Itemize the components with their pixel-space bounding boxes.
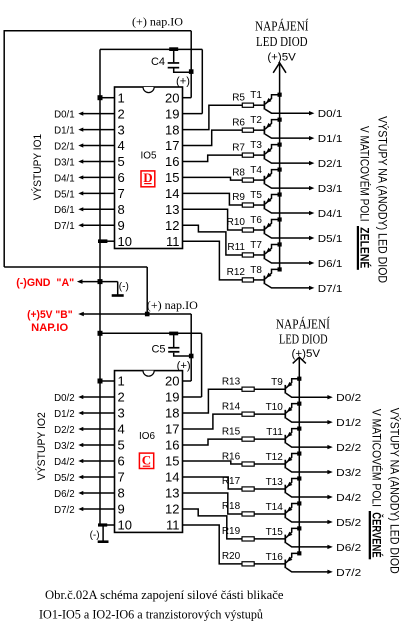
transistor T14 collector <box>286 518 328 522</box>
svg-text:D3/2: D3/2 <box>336 467 361 479</box>
svg-text:D7/2: D7/2 <box>54 504 75 516</box>
wire pin3 IO6 to D1/2 <box>82 412 115 414</box>
svg-text:17: 17 <box>165 422 179 437</box>
resistor R16 <box>242 462 254 466</box>
underline CERVENE <box>369 511 371 559</box>
transistor T10 base bar <box>284 410 286 419</box>
wire R16 to T12 base <box>254 463 285 465</box>
svg-text:D4/2: D4/2 <box>54 456 75 468</box>
arrow output D1/2 <box>327 420 332 424</box>
transistor T1 emitter arrow <box>266 98 271 103</box>
arrow output D6/2 <box>327 545 332 549</box>
wire GND loop2 drop to pin19 IO6 <box>201 333 203 397</box>
transistor T12 emitter <box>286 454 299 464</box>
transistor T15 emitter arrow <box>287 532 292 537</box>
transistor T14 emitter arrow <box>287 507 292 512</box>
svg-text:D7/1: D7/1 <box>318 283 343 295</box>
junction T2 emitter on +5V rail <box>278 118 282 122</box>
svg-text:C: C <box>142 453 151 468</box>
wire pin18 IO5 to R5 <box>183 105 243 129</box>
wire +nap.IO top horizontal <box>4 30 192 32</box>
junction GND loop2 <box>98 331 103 336</box>
junction T14 emitter on +5V rail <box>297 501 301 505</box>
junction T1 emitter on +5V rail <box>278 93 282 97</box>
svg-text:14: 14 <box>165 186 179 201</box>
arrow output D7/1 <box>309 286 314 290</box>
wire +5V rail (green section) <box>279 63 281 270</box>
wire pin17 IO6 to R14 <box>183 414 243 429</box>
svg-text:VÝSTUPY NA (ANODY) LED DIOD: VÝSTUPY NA (ANODY) LED DIOD <box>375 116 390 283</box>
wire pin18 IO6 to R13 <box>183 389 243 413</box>
resistor R5 <box>242 103 253 107</box>
junction C5 top lead on GND loop <box>169 332 178 336</box>
svg-text:5: 5 <box>118 154 125 169</box>
svg-text:LED DIOD: LED DIOD <box>256 34 308 49</box>
IC IO6 notch <box>143 371 154 377</box>
resistor R15 <box>242 437 254 441</box>
svg-text:IO1-IO5 a IO2-IO6 a tranzistor: IO1-IO5 a IO2-IO6 a tranzistorových výst… <box>39 607 263 622</box>
IO6 left pin numbers 1-10 <box>118 374 132 533</box>
wire pin11 IO6 to R20 <box>183 525 243 564</box>
svg-text:D2/1: D2/1 <box>318 158 343 170</box>
svg-text:D: D <box>143 170 152 185</box>
svg-text:2: 2 <box>118 106 125 121</box>
transistor T5 collector <box>265 209 310 213</box>
junction C4 (+) lead <box>189 69 194 74</box>
junction T5 emitter on +5V rail <box>278 192 282 196</box>
transistor T8 collector <box>265 284 310 288</box>
svg-text:T16: T16 <box>266 552 284 563</box>
capacitor C5 bottom plate <box>168 351 179 353</box>
svg-text:NAP.IO: NAP.IO <box>31 322 68 334</box>
svg-text:D0/1: D0/1 <box>318 108 343 120</box>
transistor T13 emitter <box>286 479 299 489</box>
wire pin6 IO5 to D4/1 <box>82 176 115 178</box>
svg-text:T3: T3 <box>250 140 262 151</box>
svg-text:R13: R13 <box>222 376 241 387</box>
svg-text:15: 15 <box>165 454 179 469</box>
svg-text:NAPÁJENÍ: NAPÁJENÍ <box>276 317 330 332</box>
transistor T10 collector <box>286 418 328 422</box>
transistor T4 emitter <box>265 170 280 180</box>
wire +5V rail (red section) <box>298 357 300 553</box>
arrow D3/1 (points left) <box>78 159 83 163</box>
arrow D4/2 (points left) <box>78 459 83 463</box>
transistor T14 emitter <box>286 503 299 513</box>
transistor T15 base bar <box>284 535 286 544</box>
capacitor C5 bottom lead <box>174 353 192 356</box>
arrow output D0/2 <box>327 395 332 399</box>
svg-text:20: 20 <box>165 374 179 389</box>
svg-text:9: 9 <box>118 218 125 233</box>
svg-text:13: 13 <box>165 486 179 501</box>
arrow D3/2 (points left) <box>78 443 83 447</box>
svg-text:D0/1: D0/1 <box>54 109 75 121</box>
svg-text:9: 9 <box>118 502 125 517</box>
wire ground stem below IO6 <box>102 525 104 541</box>
transistor T7 emitter <box>265 244 280 254</box>
red letter D underline <box>144 183 151 185</box>
red letter C underline <box>143 465 150 467</box>
svg-text:(+) nap.IO: (+) nap.IO <box>132 15 183 29</box>
wire +nap vertical to C4 (+) <box>190 31 192 98</box>
wire +nap.IO drop to +5V B line <box>146 267 148 314</box>
svg-text:VÝSTUPY IO1: VÝSTUPY IO1 <box>31 134 44 201</box>
svg-text:T5: T5 <box>250 190 262 201</box>
wire pin4 IO5 to D2/1 <box>82 145 115 147</box>
svg-text:(-): (-) <box>119 282 129 293</box>
wire pin19 IO6 <box>183 396 202 398</box>
wire pin5 IO5 to D3/1 <box>82 160 115 162</box>
svg-text:D0/2: D0/2 <box>336 392 361 404</box>
svg-text:D5/1: D5/1 <box>318 233 343 245</box>
wire R19 to T15 base <box>254 538 285 540</box>
svg-text:Obr.č.02A schéma zapojení silo: Obr.č.02A schéma zapojení silové části b… <box>45 587 284 602</box>
svg-text:11: 11 <box>166 518 180 533</box>
wire pin9 IO6 to D7/2 <box>82 508 115 510</box>
transistor T2 emitter <box>265 120 280 130</box>
svg-text:D6/1: D6/1 <box>318 258 343 270</box>
transistor T16 collector <box>286 568 328 572</box>
svg-text:T11: T11 <box>266 427 283 438</box>
svg-text:D1/1: D1/1 <box>318 133 343 145</box>
red letter box C (IO6) <box>139 453 153 468</box>
svg-text:R16: R16 <box>222 451 241 462</box>
junction T4 emitter on +5V rail <box>278 167 282 171</box>
wire pin1 IO6 <box>100 380 115 382</box>
wire pin6 IO6 to D4/2 <box>82 460 115 462</box>
arrow output D0/1 <box>309 111 314 115</box>
svg-text:13: 13 <box>165 202 179 217</box>
wire R18 to T14 base <box>254 513 285 515</box>
wire R15 to T11 base <box>254 438 285 440</box>
wire pin16 IO5 to R7 <box>183 155 243 161</box>
wire pin5 IO6 to D3/2 <box>82 444 115 446</box>
transistor T16 emitter arrow <box>287 557 292 562</box>
svg-text:R5: R5 <box>232 92 245 103</box>
svg-text:VÝSTUPY NA (ANODY) LED DIOD: VÝSTUPY NA (ANODY) LED DIOD <box>388 408 403 574</box>
svg-text:D5/2: D5/2 <box>54 472 75 484</box>
resistor R13 <box>242 387 254 391</box>
junction T7 emitter on +5V rail <box>278 242 282 246</box>
junction T12 emitter on +5V rail <box>297 451 301 455</box>
wire pin13 IO5 to R10 <box>183 209 243 230</box>
transistor T9 base bar <box>284 385 286 394</box>
junction T8 emitter on +5V rail <box>278 267 282 271</box>
svg-text:19: 19 <box>165 106 179 121</box>
transistor T2 emitter arrow <box>266 123 271 128</box>
IC IO6 body <box>115 371 183 533</box>
arrow D4/1 (points left) <box>78 175 83 179</box>
svg-text:D7/2: D7/2 <box>336 567 361 579</box>
junction T11 emitter on +5V rail <box>297 427 301 431</box>
wire GND loop1 drop to pin19 IO5 <box>201 49 203 113</box>
svg-text:15: 15 <box>165 170 179 185</box>
svg-text:D5/1: D5/1 <box>54 188 75 200</box>
arrow D5/2 (points left) <box>78 475 83 479</box>
transistor T9 emitter <box>286 379 299 389</box>
transistor T6 emitter arrow <box>266 223 271 228</box>
svg-text:R15: R15 <box>222 426 241 437</box>
svg-text:6: 6 <box>118 170 125 185</box>
arrow +5V B (points left) <box>78 312 84 317</box>
svg-text:12: 12 <box>165 502 179 517</box>
svg-text:T15: T15 <box>266 527 284 538</box>
arrow output D3/1 <box>309 186 314 190</box>
arrow D0/2 (points left) <box>78 395 83 399</box>
arrow output D5/1 <box>309 236 314 240</box>
transistor T13 collector <box>286 493 328 497</box>
wire pin3 IO5 to D1/1 <box>82 129 115 131</box>
junction T10 emitter on +5V rail <box>297 402 301 406</box>
svg-text:3: 3 <box>118 406 125 421</box>
wire R20 to T16 base <box>254 563 285 565</box>
wire pin4 IO6 to D2/2 <box>82 428 115 430</box>
IC IO5 body <box>115 87 183 249</box>
transistor T9 emitter arrow <box>287 382 292 387</box>
svg-text:11: 11 <box>166 234 180 249</box>
svg-text:NAPÁJENÍ: NAPÁJENÍ <box>255 18 309 33</box>
svg-text:D3/1: D3/1 <box>54 156 75 168</box>
svg-text:D4/1: D4/1 <box>318 208 343 220</box>
svg-text:12: 12 <box>165 218 179 233</box>
transistor T11 emitter <box>286 429 299 439</box>
capacitor C4 bottom lead <box>174 68 192 72</box>
transistor T7 collector <box>265 259 310 263</box>
svg-text:1: 1 <box>118 90 125 105</box>
svg-text:8: 8 <box>118 486 125 501</box>
arrow output D2/2 <box>327 445 332 449</box>
wire pin14 IO6 to R17 <box>183 477 243 489</box>
junction C5 (+) lead <box>189 354 194 359</box>
arrow D6/1 (points left) <box>78 207 83 211</box>
wire R5 to T1 base <box>254 104 265 106</box>
arrow D2/1 (points left) <box>78 143 83 147</box>
svg-text:VÝSTUPY IO2: VÝSTUPY IO2 <box>35 412 48 480</box>
junction T3 emitter on +5V rail <box>278 143 282 147</box>
transistor T12 collector <box>286 468 328 472</box>
svg-text:D5/2: D5/2 <box>336 517 361 529</box>
arrow output D7/2 <box>327 570 332 574</box>
wire R11 to T7 base <box>254 254 265 256</box>
svg-text:1: 1 <box>118 374 125 389</box>
svg-text:17: 17 <box>165 138 179 153</box>
transistor T1 emitter <box>265 95 280 105</box>
transistor T7 base bar <box>263 251 265 260</box>
transistor T6 base bar <box>263 226 265 235</box>
transistor T8 base bar <box>263 276 265 285</box>
junction C4 top lead on GND loop <box>169 47 178 51</box>
junction GND at pin10 IO6 <box>98 523 107 526</box>
wire R7 to T3 base <box>254 154 265 156</box>
junction T15 emitter on +5V rail <box>297 526 301 530</box>
svg-text:(+)5V: (+)5V <box>267 52 296 64</box>
arrow D7/2 (points left) <box>78 507 83 511</box>
ground (-) bar below IO6 <box>98 540 109 543</box>
svg-text:D4/2: D4/2 <box>336 492 361 504</box>
transistor T9 collector <box>286 393 328 397</box>
capacitor C5 top lead <box>173 333 175 347</box>
resistor R18 <box>242 512 254 516</box>
wire +5V B horizontal <box>82 313 192 315</box>
resistor R14 <box>242 412 254 416</box>
transistor T2 collector <box>265 134 310 138</box>
wire (-) terminal stem <box>117 282 119 295</box>
junction +nap.IO / +5V B <box>145 312 150 317</box>
wire pin2 IO6 to D0/2 <box>82 396 115 398</box>
arrow D6/2 (points left) <box>78 491 83 495</box>
svg-text:D1/2: D1/2 <box>54 408 75 420</box>
arrow output D5/2 <box>327 520 332 524</box>
arrow +5V rail up (red) <box>293 357 306 363</box>
svg-text:T7: T7 <box>250 240 262 251</box>
resistor R12 <box>242 278 253 282</box>
arrow output D4/1 <box>309 211 314 215</box>
resistor R8 <box>242 178 253 182</box>
svg-text:(+) nap.IO: (+) nap.IO <box>147 298 198 312</box>
junction GND A node <box>98 279 103 284</box>
transistor T3 base bar <box>263 151 265 160</box>
transistor T15 emitter <box>286 528 299 538</box>
resistor R17 <box>242 487 254 491</box>
transistor T12 emitter arrow <box>287 457 292 462</box>
svg-text:R19: R19 <box>222 526 241 537</box>
svg-text:D2/1: D2/1 <box>54 140 75 152</box>
arrow output D2/1 <box>309 161 314 165</box>
svg-text:C5: C5 <box>151 344 165 356</box>
arrow D1/2 (points left) <box>78 411 83 415</box>
junction GND at pin1 IO6 <box>98 379 103 384</box>
transistor T8 emitter arrow <box>266 273 271 278</box>
transistor T15 collector <box>286 543 328 547</box>
capacitor C5 top plate <box>168 347 179 349</box>
resistor R10 <box>242 228 253 232</box>
svg-text:R7: R7 <box>232 142 245 153</box>
IO5 left pin numbers 1-10 <box>118 90 132 248</box>
arrow output D1/1 <box>309 136 314 140</box>
transistor T5 emitter arrow <box>266 198 271 203</box>
wire R17 to T13 base <box>254 488 285 490</box>
svg-text:14: 14 <box>165 470 179 485</box>
arrow output D4/2 <box>327 495 332 499</box>
transistor T1 collector <box>265 109 310 113</box>
wire pin14 IO5 to R9 <box>183 193 243 205</box>
wire pin7 IO5 to D5/1 <box>82 192 115 194</box>
transistor T11 base bar <box>284 435 286 444</box>
arrow D2/2 (points left) <box>78 427 83 431</box>
transistor T3 collector <box>265 159 310 163</box>
svg-text:20: 20 <box>165 90 179 105</box>
wire pin12 IO5 to R11 <box>183 225 243 255</box>
svg-text:6: 6 <box>118 454 125 469</box>
junction T16 emitter on +5V rail <box>297 551 301 555</box>
svg-text:D3/1: D3/1 <box>318 183 343 195</box>
svg-text:D4/1: D4/1 <box>54 172 75 184</box>
svg-text:D2/2: D2/2 <box>54 424 75 436</box>
resistor R20 <box>242 562 254 566</box>
transistor T5 base bar <box>263 201 265 210</box>
wire pin20 IO5 <box>183 97 192 99</box>
transistor T11 collector <box>286 443 328 447</box>
svg-text:D2/2: D2/2 <box>336 442 361 454</box>
transistor T16 emitter <box>286 553 299 563</box>
wire GND loop2 horizontal (to C5/pin19) <box>100 332 202 334</box>
wire R6 to T2 base <box>254 129 265 131</box>
wire pin19 IO5 <box>183 113 203 115</box>
svg-text:IO5: IO5 <box>141 149 157 161</box>
wire pin1 IO5 <box>100 97 115 99</box>
transistor T14 base bar <box>284 510 286 519</box>
svg-text:R11: R11 <box>227 242 245 253</box>
wire GND main vertical <box>99 49 101 525</box>
wire GND loop1 horizontal (to C4/pin19) <box>100 48 202 50</box>
svg-text:(+)5V "B": (+)5V "B" <box>27 309 73 321</box>
transistor T3 emitter <box>265 145 280 155</box>
wire +nap.IO lower horizontal <box>4 266 147 268</box>
svg-text:C4: C4 <box>151 56 165 68</box>
resistor R9 <box>242 203 253 207</box>
wire pin15 IO6 to R16 <box>183 461 243 464</box>
svg-text:IO6: IO6 <box>139 430 155 442</box>
svg-text:T8: T8 <box>250 265 262 276</box>
transistor T12 base bar <box>284 460 286 469</box>
svg-text:ZELENÉ: ZELENÉ <box>357 227 372 268</box>
wire pin8 IO5 to D6/1 <box>82 208 115 210</box>
svg-text:D7/1: D7/1 <box>54 220 75 232</box>
wire R8 to T4 base <box>254 179 265 181</box>
resistor R7 <box>242 153 253 157</box>
capacitor C4 top lead <box>173 49 175 62</box>
red letter box D (IO5) <box>141 171 155 187</box>
IO6 right pin numbers 20-11 <box>165 374 179 533</box>
wire pin10 IO5 <box>100 240 115 242</box>
capacitor C4 top plate <box>168 62 180 64</box>
svg-text:T10: T10 <box>266 402 284 413</box>
wire +nap.IO left vertical <box>3 30 5 267</box>
svg-text:T1: T1 <box>250 90 262 101</box>
svg-text:7: 7 <box>118 186 125 201</box>
svg-text:T13: T13 <box>266 477 284 488</box>
arrow D1/1 (points left) <box>78 127 83 131</box>
IO5 right pin numbers 20-11 <box>165 90 179 248</box>
wire R12 to T8 base <box>254 279 265 281</box>
svg-text:(+): (+) <box>176 76 190 88</box>
wire pin7 IO6 to D5/2 <box>82 476 115 478</box>
wire R13 to T9 base <box>254 388 285 390</box>
svg-text:T4: T4 <box>250 165 262 176</box>
svg-text:R14: R14 <box>222 401 241 412</box>
wire +nap vertical to C5 (+) <box>190 314 192 381</box>
transistor T11 emitter arrow <box>287 432 292 437</box>
transistor T16 base bar <box>284 560 286 569</box>
wire pin15 IO5 to R8 <box>183 177 243 180</box>
svg-text:ČERVENÉ: ČERVENÉ <box>370 512 385 557</box>
svg-text:D6/2: D6/2 <box>336 542 361 554</box>
svg-text:V MATICOVÉM POLI: V MATICOVÉM POLI <box>370 409 385 507</box>
svg-text:T14: T14 <box>266 502 284 513</box>
resistor R11 <box>242 253 253 257</box>
svg-text:D1/2: D1/2 <box>336 417 361 429</box>
svg-text:D1/1: D1/1 <box>54 124 75 136</box>
svg-text:R10: R10 <box>227 217 246 228</box>
wire R14 to T10 base <box>254 413 285 415</box>
svg-text:R20: R20 <box>222 551 241 562</box>
wire pin20 IO6 <box>183 380 192 382</box>
transistor T6 collector <box>265 234 310 238</box>
svg-text:R6: R6 <box>232 117 245 128</box>
svg-text:(-): (-) <box>90 530 100 541</box>
wire R9 to T5 base <box>254 204 265 206</box>
